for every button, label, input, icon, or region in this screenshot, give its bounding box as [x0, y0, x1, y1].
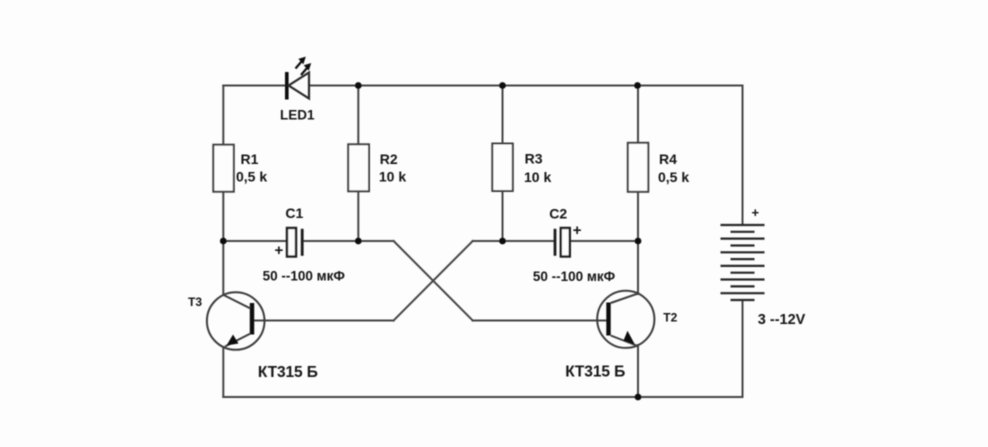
node junction top rail R2: [355, 82, 362, 89]
svg-text:C1: C1: [285, 205, 303, 221]
node junction C1 right R2 column: [355, 238, 362, 245]
svg-text:R1: R1: [241, 151, 259, 167]
svg-text:0,5 k: 0,5 k: [658, 169, 689, 185]
svg-text:R4: R4: [659, 151, 677, 167]
battery B1: [721, 225, 765, 300]
node junction C2 right R4 column: [635, 238, 642, 245]
wire diagonal C2 row to T3 base: [394, 241, 473, 321]
svg-text:+: +: [573, 222, 582, 239]
node junction bottom rail T2 emitter: [635, 394, 642, 401]
node junction top rail R3: [499, 82, 506, 89]
node junction C2 left R3 column: [499, 238, 506, 245]
wire C2 row left of capacitor: [473, 240, 554, 242]
wire battery top lead: [742, 86, 744, 226]
svg-text:T3: T3: [188, 295, 202, 309]
resistor R1: [213, 145, 234, 192]
wire top rail left segment: [223, 85, 285, 87]
wire T3 base horizontal: [254, 320, 394, 322]
wire left vertical from top rail to R1: [222, 86, 224, 146]
wire R3 top: [502, 86, 504, 145]
svg-text:C2: C2: [549, 206, 567, 222]
wire C1 row right of capacitor: [303, 240, 394, 242]
svg-text:R3: R3: [525, 151, 543, 167]
wire R4 top: [637, 86, 639, 144]
svg-text:50 --100 мкФ: 50 --100 мкФ: [533, 269, 616, 284]
node junction top rail R4: [634, 82, 641, 89]
LED LED1: [285, 57, 311, 100]
resistor R2: [348, 144, 369, 191]
wire C2 row right of capacitor: [568, 240, 638, 242]
svg-text:10 k: 10 k: [379, 169, 406, 185]
svg-text:LED1: LED1: [280, 108, 315, 123]
wire T2 base horizontal: [473, 320, 607, 322]
resistor R4: [628, 143, 649, 192]
wire T3 emitter to bottom rail: [222, 347, 224, 397]
wire T2 emitter to bottom rail: [637, 345, 639, 397]
transistor T2: [597, 291, 654, 348]
svg-text:0,5 k: 0,5 k: [236, 168, 267, 184]
capacitor C2: [554, 228, 570, 257]
wire diagonal C1 row to T2 base: [394, 241, 473, 321]
wire R2 bottom to C1 row: [357, 191, 359, 241]
transistor T3: [207, 292, 265, 350]
svg-text:КТ315 Б: КТ315 Б: [258, 364, 318, 381]
wire R3 bottom to C2 row: [502, 191, 504, 241]
svg-text:R2: R2: [380, 151, 398, 167]
svg-text:50 --100 мкФ: 50 --100 мкФ: [263, 268, 346, 283]
svg-text:3 --12V: 3 --12V: [758, 312, 806, 328]
resistor R3: [492, 144, 513, 192]
wire R4 bottom through C2 junction to T2 collector: [637, 192, 639, 294]
capacitor C1: [287, 228, 304, 257]
node junction C1 left R1 column: [220, 238, 227, 245]
wire bottom rail: [223, 396, 742, 398]
svg-text:КТ315 Б: КТ315 Б: [565, 364, 625, 381]
svg-text:T2: T2: [663, 311, 677, 325]
wire R2 top: [357, 86, 359, 146]
wire R1 bottom to C1 junction to T3 collector: [222, 192, 224, 296]
wire top rail right segment: [310, 85, 743, 87]
wire battery bottom lead: [742, 300, 744, 397]
svg-text:10 k: 10 k: [524, 169, 551, 185]
wire C1 row left of capacitor: [223, 240, 287, 242]
svg-text:+: +: [752, 205, 760, 220]
svg-text:+: +: [275, 242, 284, 259]
